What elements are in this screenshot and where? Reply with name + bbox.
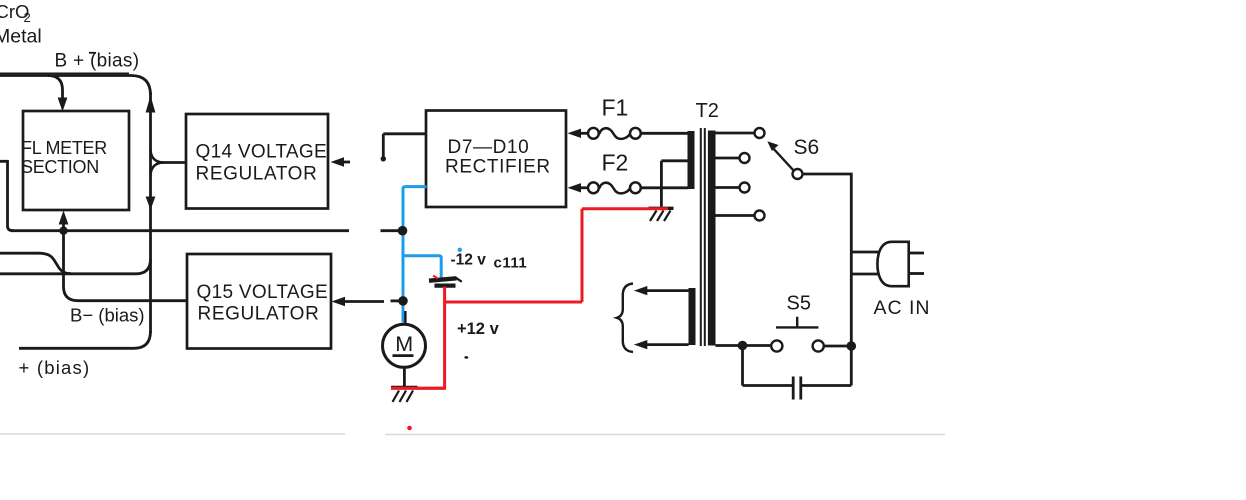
- wire motor top stub: [404, 311, 406, 325]
- svg-text:REGULATOR: REGULATOR: [196, 164, 318, 185]
- arrowhead into rectifier right edge (F2): [568, 183, 582, 192]
- capacitor (across S5): [793, 377, 801, 400]
- wire plug top cord: [850, 251, 880, 254]
- pin circle tap 3: [740, 183, 750, 193]
- wire bottom curve into + (bias) line: [19, 331, 151, 348]
- svg-text:c111: c111: [494, 254, 528, 271]
- node junction dot on blue bus at y=300.9: [398, 296, 408, 306]
- wire S6 to AC corner: [803, 173, 851, 176]
- wire blue -12V highlighted run: [403, 187, 441, 323]
- svg-text:S5: S5: [787, 293, 811, 315]
- wire branch from bus to Q14 left edge: [158, 161, 186, 164]
- wire motor bottom stub: [403, 368, 406, 388]
- wire S-curve pair from left edge joining bias bus: [0, 253, 71, 273]
- svg-text:+12 v: +12 v: [457, 320, 500, 338]
- wire tap 4: [716, 214, 755, 217]
- wire B+ horizontal from left edge curving into vertical bus: [0, 76, 151, 96]
- stray blue dot: [458, 248, 462, 252]
- wire tap 3: [716, 186, 740, 189]
- svg-text:+ (bias): + (bias): [19, 357, 91, 378]
- svg-text:T2: T2: [696, 100, 719, 122]
- switch S5 contact left: [771, 340, 782, 351]
- arrowhead into FL METER bottom: [59, 211, 69, 225]
- box Q15 VOLTAGE REGULATOR: [187, 254, 331, 349]
- wire tap 2: [716, 157, 740, 160]
- arrowhead down on bias bus: [146, 197, 156, 211]
- transformer T2 low-voltage winding (bottom left bar): [689, 288, 696, 345]
- box Q14 VOLTAGE REGULATOR: [186, 114, 328, 209]
- wire hook from rectifier left edge: [383, 134, 426, 157]
- arrowhead into FL METER top: [58, 98, 68, 112]
- capacitor C111 bottom plate: [435, 284, 456, 288]
- transformer T2 primary winding (right bar): [708, 131, 716, 346]
- box FL METER SECTION: [23, 111, 129, 210]
- wire primary top tap to pin: [716, 132, 755, 135]
- node junction dot left of S5: [738, 341, 748, 351]
- svg-text:Q15 VOLTAGE: Q15 VOLTAGE: [197, 282, 328, 303]
- wire overlapping scan double line at left edge: [0, 72, 129, 74]
- svg-text:-12 v: -12 v: [451, 252, 487, 269]
- fuse F1: [580, 132, 589, 135]
- wire lower horizontal from left edge curving up into bias bus: [0, 259, 151, 274]
- wire long horizontal line (right part after gap): [381, 229, 401, 232]
- svg-text:F1: F1: [602, 94, 629, 120]
- arrowhead up on bias bus: [146, 96, 156, 113]
- node junction dot on AC bus: [847, 341, 857, 351]
- svg-text:S6: S6: [794, 136, 820, 159]
- svg-text:Metal: Metal: [0, 26, 42, 48]
- stray speck: [464, 356, 468, 359]
- svg-text:F2: F2: [602, 149, 629, 175]
- wire stub into blue-bus dot: [391, 299, 401, 302]
- pin circle top tap: [755, 128, 765, 138]
- svg-text:B + (bias): B + (bias): [55, 51, 140, 72]
- brace grouping winding leads: [617, 284, 633, 353]
- wire stub right of Q15 arrow (before gap): [344, 300, 384, 303]
- AC plug body: [877, 242, 908, 286]
- wire primary bottom to S5 left: [716, 344, 772, 347]
- arrowhead into rectifier right edge (F1): [568, 129, 582, 138]
- ground (transformer center tap): [649, 207, 674, 210]
- overbar mark above paren: [89, 52, 96, 54]
- transformer T2 core: [701, 128, 705, 346]
- node junction dot at FL bottom feed: [59, 227, 67, 235]
- fillet curves at bus/Q14 branch: [151, 150, 165, 175]
- arrowhead into Q14 right edge: [331, 157, 345, 166]
- wire center tap of secondary: [661, 161, 687, 207]
- switch S5 contact right: [813, 340, 824, 351]
- capacitor C111 top plate: [429, 278, 457, 280]
- svg-text:Q14 VOLTAGE: Q14 VOLTAGE: [196, 142, 327, 163]
- svg-text:REGULATOR: REGULATOR: [198, 304, 320, 325]
- wire B- run from dot down and right into Q15 left edge: [64, 231, 188, 301]
- stray red dot: [407, 426, 412, 431]
- svg-text:SECTION: SECTION: [21, 157, 99, 177]
- red marker overlay on motor ground: [391, 387, 446, 390]
- node small terminal at hook end: [381, 156, 386, 161]
- ground (motor): [391, 386, 418, 389]
- svg-text:D7—D10: D7—D10: [448, 137, 530, 158]
- plug prong bottom: [910, 272, 924, 275]
- wire AC vertical bus: [850, 173, 853, 346]
- switch S6 blade with arrow: [772, 147, 794, 171]
- svg-text:B− (bias): B− (bias): [70, 304, 145, 325]
- wire winding lead upper with arrow: [646, 289, 689, 292]
- plug prong top: [910, 252, 924, 255]
- pin circle tap 2: [740, 153, 750, 163]
- svg-text:M: M: [395, 332, 413, 356]
- faint page fold lines: [0, 433, 945, 436]
- svg-text:AC IN: AC IN: [874, 297, 931, 319]
- fuse F2: [580, 186, 589, 189]
- wire blue branch to C111: [403, 256, 441, 279]
- svg-text:RECTIFIER: RECTIFIER: [445, 156, 551, 177]
- wire long horizontal line y=230.7 (left part): [11, 229, 349, 232]
- box D7-D10 RECTIFIER: [426, 111, 566, 208]
- wire L from left edge into long bus line: [0, 160, 13, 231]
- wire capacitor loop right side: [802, 349, 851, 386]
- wire branch from B+ line down into FL METER box top: [48, 76, 63, 100]
- label CrO2: [0, 1, 31, 25]
- arrowhead into Q15 right edge: [332, 297, 346, 306]
- wire vertical with arrow into FL METER bottom: [62, 223, 65, 231]
- switch S5 button bar: [776, 317, 818, 328]
- motor M: [383, 324, 426, 367]
- pin circle tap 4: [755, 211, 765, 221]
- wire stub right of Q14 arrow: [343, 161, 350, 164]
- transformer T2 secondary winding (top left bar): [688, 131, 695, 189]
- svg-text:2: 2: [24, 10, 31, 25]
- wire plug bottom cord: [850, 273, 880, 276]
- wire capacitor loop left side: [743, 346, 793, 386]
- wire winding lead lower with arrow: [646, 343, 689, 346]
- wire red +12V highlighted run: [391, 209, 668, 389]
- red marker tick at C111: [433, 276, 438, 279]
- wire vertical bias bus x=150.5: [149, 92, 152, 333]
- node junction dot on blue bus at y=230.7: [398, 226, 408, 236]
- svg-text:FL METER: FL METER: [21, 138, 107, 158]
- switch S6 pivot circle: [793, 169, 803, 179]
- wire S5 right to AC bus: [824, 345, 849, 348]
